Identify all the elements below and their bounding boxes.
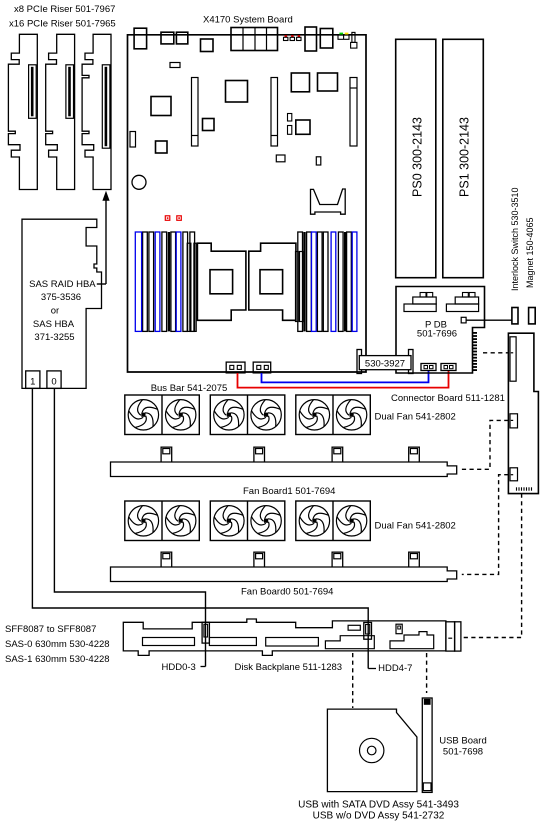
board power connector B [253,362,271,373]
svg-text:501-7696: 501-7696 [417,329,457,340]
backplane SAS conn rect3 [266,638,319,647]
label magnet [525,217,535,288]
fan board 0 [111,552,457,581]
backplane SFF8087 connector HDD4-7 [364,623,372,640]
chip square big [226,81,248,103]
tick in low slot [511,474,513,476]
disk backplane outline [123,619,446,655]
label SAS-0 [5,639,110,650]
label SAS HBA [33,319,75,330]
svg-text:USB w/o DVD Assy 541-2732: USB w/o DVD Assy 541-2732 [313,811,445,822]
small comp [170,63,180,68]
svg-text:USB Board: USB Board [439,736,487,747]
PDB PSU connector right [446,293,478,312]
dashed route fan board1 to connector board [462,420,509,469]
label dual fan row2 [375,521,456,532]
socket rail right [296,252,303,322]
chip square left [151,97,171,116]
edge slot left [130,132,136,148]
svg-text:HDD4-7: HDD4-7 [378,663,412,674]
label USB w/o DVD [313,811,445,822]
label X4170 system board [203,15,293,26]
dual fan modules row 1 [125,395,370,435]
red jumper 2 [177,216,182,221]
label dual fan row1 [375,412,456,423]
svg-text:x16 PCIe Riser 501-7965: x16 PCIe Riser 501-7965 [9,19,116,30]
label fan board0 [241,587,333,598]
power supply PS1 [443,39,484,277]
USB board [422,698,432,792]
backplane block left [325,636,374,649]
dual fan modules row 2 [125,501,370,541]
svg-text:or: or [51,305,59,316]
PCIe riser card 3 (x16 501-7965) [82,34,111,189]
dashed route backplane to connector board [462,494,522,638]
label interlock switch [510,187,520,291]
blue power wire [262,371,429,382]
board connector (right) [320,29,333,49]
svg-text:0: 0 [51,377,56,388]
svg-text:371-3255: 371-3255 [34,332,74,343]
label USB board [439,736,487,758]
connector board mid slot [510,414,518,428]
HBA port 1 [26,371,40,389]
label 371-3255 [34,332,74,343]
power supply PS0 [396,39,436,277]
label x8 PCIe riser [14,4,115,15]
tiny rect b [288,126,292,135]
connector board low slot [510,468,518,481]
label PDB [417,320,457,340]
connector board outline [508,333,538,493]
backplane small square [396,624,402,634]
svg-text:1: 1 [30,377,35,388]
svg-text:375-3536: 375-3536 [41,292,81,303]
label SAS RAID HBA [29,279,96,290]
small post with square [351,32,357,48]
connector board USB comb [517,487,532,490]
svg-text:SFF8087 to SFF8087: SFF8087 to SFF8087 [5,624,96,635]
backplane block right [390,632,434,649]
riser slot 3 [350,78,357,147]
mounting hole [132,175,146,189]
DVD drive [327,709,417,792]
heatsink bracket [311,189,346,214]
backplane small rect top [348,625,360,630]
socket rail left [187,243,196,331]
backplane SAS conn rect2 [209,638,256,646]
LED pair green/yellow [338,33,349,40]
svg-text:PS0 300-2143: PS0 300-2143 [411,117,425,197]
arrow HBA to riser3 [97,192,109,284]
board connector square A [161,32,174,44]
chip mid2 [296,120,310,134]
label HDD0-3 [162,662,206,673]
svg-text:x8 PCIe Riser 501-7967: x8 PCIe Riser 501-7967 [14,4,115,15]
svg-text:Connector Board 511-1281: Connector Board 511-1281 [391,393,505,404]
PDB fan power connector 2 [441,364,456,371]
dashed route backplane to USB board [426,653,428,693]
board connector (small below edge) [201,39,214,52]
small comp d [316,157,321,165]
chip M2 [318,73,338,91]
svg-text:501-7698: 501-7698 [443,747,483,758]
X4170 system board outline [128,35,367,372]
svg-text:SAS HBA: SAS HBA [33,319,75,330]
PCIe riser card 2 (x8 501-7967) [46,34,75,189]
SAS cable 0 (to HDD0-3) [54,388,205,666]
label SFF8087 [5,624,96,635]
label USB with SATA DVD [298,800,459,811]
svg-text:Magnet 150-4065: Magnet 150-4065 [525,217,535,288]
svg-text:Interlock Switch 530-3510: Interlock Switch 530-3510 [510,187,520,291]
PDB board outline [396,287,485,374]
board power connector A [226,362,245,373]
dashed route fan board0 to connector board [462,475,509,575]
label disk backplane [235,662,343,673]
tick in top slot [511,352,513,354]
board connector (left tall) [134,28,147,49]
label SAS-1 [5,654,110,665]
svg-text:SAS-0 630mm 530-4228: SAS-0 630mm 530-4228 [5,639,110,650]
board rear connector stack (4 cells) [231,28,278,51]
red jumper 1 [165,216,170,221]
chip M1 [291,73,309,92]
label or [51,305,59,316]
svg-text:X4170 System Board: X4170 System Board [203,15,293,26]
svg-text:Dual Fan 541-2802: Dual Fan 541-2802 [375,521,456,532]
backplane SAS conn rect1 [143,638,195,646]
interlock switch [512,308,518,324]
PCIe riser card 1 (x8 501-7967) [8,34,37,189]
svg-text:Disk Backplane 511-1283: Disk Backplane 511-1283 [235,662,343,673]
svg-text:530-3927: 530-3927 [365,358,405,369]
chip small mid [203,119,215,131]
DIMM bank right (CPU1) [298,232,357,331]
interlock wire [466,319,512,321]
interlock sense connector [461,317,466,323]
svg-text:Fan Board0 501-7694: Fan Board0 501-7694 [241,587,333,598]
PDB PSU connector left [404,293,436,312]
dashed route backplane to DVD [352,653,354,708]
riser slot 1 [192,78,199,147]
magnet [529,308,536,324]
svg-text:PS1 300-2143: PS1 300-2143 [458,117,472,197]
chip small lower [156,141,168,153]
PDB fan power connector 1 [421,364,436,371]
label fan board1 [243,486,335,497]
svg-text:Dual Fan 541-2802: Dual Fan 541-2802 [375,412,456,423]
backplane SFF8087 connector HDD0-3 [202,622,209,643]
label 375-3536 [41,292,81,303]
cable 530-3927 label box [357,350,413,374]
board connector (tall, right) [305,27,317,51]
svg-text:HDD0-3: HDD0-3 [162,662,196,673]
indicator LEDs (red) [284,35,302,40]
SAS cable 1 (to HDD4-7) [32,388,368,668]
connector board top slot [510,337,516,381]
CPU0 socket [197,243,246,320]
label connector board [391,393,505,404]
CPU1 socket [249,243,296,320]
riser slot 2 [271,78,278,147]
SAS HBA card outline [22,219,102,388]
red power wire [238,371,449,388]
board connector square B [176,32,187,44]
svg-text:USB with SATA DVD Assy 541-349: USB with SATA DVD Assy 541-3493 [298,800,459,811]
label HDD4-7 [368,663,412,674]
dashed route PDB to connector board [483,352,508,354]
svg-text:SAS RAID HBA: SAS RAID HBA [29,279,96,290]
svg-text:Bus Bar 541-2075: Bus Bar 541-2075 [151,383,228,394]
label bus bar [151,383,228,394]
HBA port 0 [47,371,61,389]
backplane end cap [446,622,461,651]
fan board 1 [111,447,457,476]
svg-text:SAS-1 630mm 530-4228: SAS-1 630mm 530-4228 [5,654,110,665]
svg-text:Fan Board1 501-7694: Fan Board1 501-7694 [243,486,335,497]
label x16 PCIe riser [9,19,116,30]
tiny rect a [288,114,292,122]
small comp c [276,155,285,162]
tick in mid slot [511,419,513,421]
DIMM bank left (CPU0) [135,232,194,331]
